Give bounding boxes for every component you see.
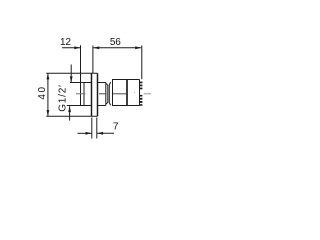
svg-text:12: 12 xyxy=(60,37,71,48)
centerline nut right faint dash xyxy=(134,91,135,93)
dimension 40 top arrowhead xyxy=(47,73,50,79)
dimension 56 line xyxy=(93,47,141,49)
olive left contour xyxy=(106,84,108,105)
svg-text:40: 40 xyxy=(37,85,48,99)
extension line flange top edge xyxy=(46,72,97,74)
centerline nut dash xyxy=(113,93,126,95)
neck right face xyxy=(105,83,107,106)
dimension 12 line xyxy=(62,47,80,49)
outlet serration teeth xyxy=(140,82,143,106)
nut right face xyxy=(139,80,141,106)
nut left face xyxy=(112,80,114,106)
dimension 7 right tail xyxy=(97,132,114,134)
extension line flange bottom edge xyxy=(46,115,97,117)
dimension 7 extension line left xyxy=(91,118,93,139)
dimension 56 left arrowhead xyxy=(93,46,99,49)
svg-text:7: 7 xyxy=(113,122,119,133)
dimension 40 bottom arrowhead xyxy=(47,110,50,116)
dimension 40 line xyxy=(47,73,49,116)
nut bottom edge xyxy=(112,105,140,107)
flange left face xyxy=(91,73,93,116)
svg-text:G1/2′: G1/2′ xyxy=(58,84,69,112)
dimension 12 arrowhead xyxy=(74,46,80,49)
neck bottom edge xyxy=(98,105,106,107)
wall line xyxy=(80,45,82,105)
thread dim top arrow xyxy=(70,65,72,83)
dimension 7 extension line right xyxy=(96,118,98,139)
pipe stub left face xyxy=(83,83,85,106)
dimension 56 right arrowhead xyxy=(135,46,141,49)
thread dim bottom arrow xyxy=(69,106,71,120)
pipe stub bottom edge (with extension) xyxy=(67,105,92,107)
nut divider xyxy=(126,80,128,106)
pipe stub top edge (with extension) xyxy=(70,82,92,84)
centerline neck dash xyxy=(99,93,107,95)
centerline left dash xyxy=(76,93,85,95)
flange right face xyxy=(97,73,99,116)
nut top edge xyxy=(112,79,140,81)
olive right contour xyxy=(109,82,110,105)
dimension 7 left arrowhead xyxy=(86,132,92,135)
svg-text:56: 56 xyxy=(110,37,121,48)
extension line flange left face (top) xyxy=(92,46,94,74)
centerline right dash xyxy=(144,93,151,95)
dimension 7 right arrowhead xyxy=(97,132,103,135)
neck top edge xyxy=(98,82,106,84)
extension line part right end (top) xyxy=(141,46,143,80)
dimension 7 left tail xyxy=(78,132,92,134)
